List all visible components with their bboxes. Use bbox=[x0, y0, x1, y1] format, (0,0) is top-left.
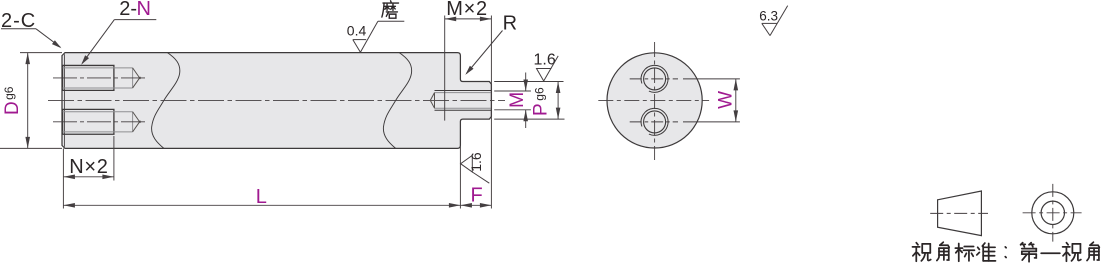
svg-text:R: R bbox=[503, 12, 517, 34]
svg-text:g6: g6 bbox=[533, 87, 547, 101]
svg-text:M: M bbox=[506, 92, 528, 108]
svg-text:0.4: 0.4 bbox=[347, 22, 367, 38]
svg-text:6.3: 6.3 bbox=[759, 8, 778, 23]
svg-text:N: N bbox=[137, 0, 151, 20]
svg-text:2-: 2- bbox=[119, 0, 137, 20]
svg-text:g6: g6 bbox=[2, 86, 16, 100]
svg-text:W: W bbox=[716, 91, 737, 109]
svg-text:M×2: M×2 bbox=[446, 0, 488, 20]
svg-text:L: L bbox=[256, 186, 267, 208]
svg-text:D: D bbox=[2, 101, 23, 115]
svg-text:1.6: 1.6 bbox=[468, 152, 484, 172]
svg-text:P: P bbox=[530, 103, 551, 116]
